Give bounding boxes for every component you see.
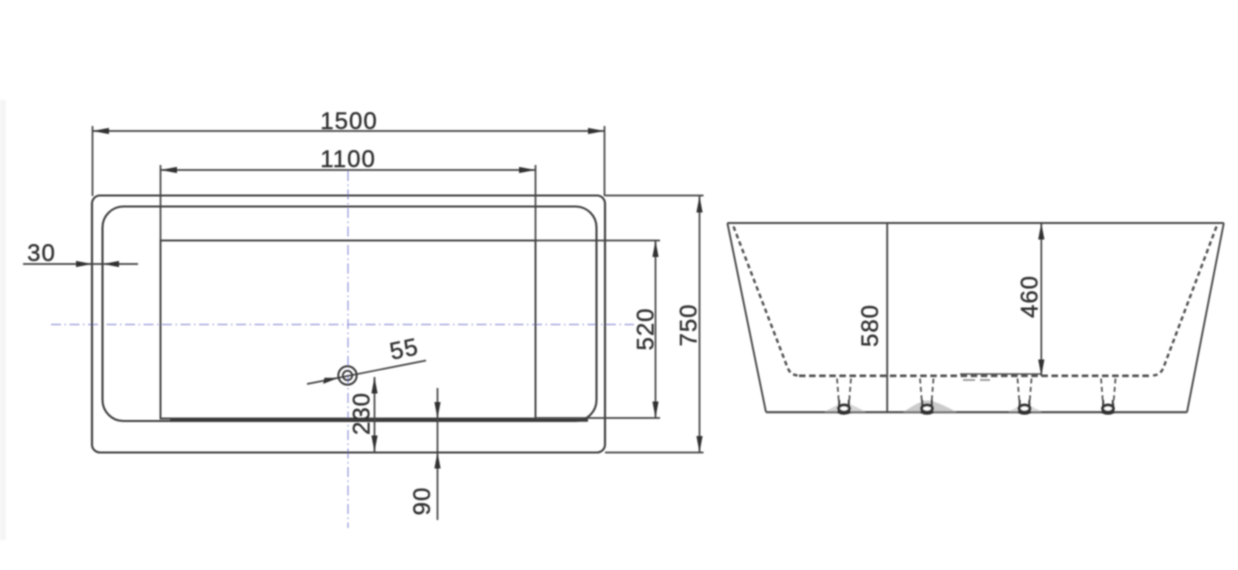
dimension 230: bottom arrow	[371, 436, 377, 453]
dimension 30: right arrow	[103, 261, 119, 267]
drain leader line 55	[307, 361, 426, 385]
drain leader arrow	[323, 378, 338, 384]
elevation: right inner hidden slope (dashed)	[1152, 227, 1217, 376]
drain inner circle	[343, 371, 352, 380]
foot 4 hidden lines (dashed)	[1101, 379, 1116, 407]
dimension 1500: right arrow	[588, 128, 605, 134]
tub floor rectangle (plan view)	[161, 241, 536, 419]
svg-text:1100: 1100	[320, 146, 376, 173]
inner rim rounded rectangle (plan view)	[103, 207, 597, 422]
dimension 1500: dim line	[93, 130, 605, 132]
elevation: top rim edge	[727, 222, 1223, 224]
svg-text:580: 580	[857, 304, 884, 347]
svg-text:90: 90	[409, 487, 436, 516]
dimension 520: top extension line	[536, 240, 661, 242]
foot 1 hidden lines (dashed)	[837, 379, 851, 407]
elevation: bottom edge	[766, 411, 1187, 413]
dimension 460: bottom arrow	[1038, 360, 1044, 377]
svg-text:55: 55	[387, 333, 421, 365]
foot 4 glyph	[1102, 400, 1115, 414]
dimension 90: lower arrow (points up)	[434, 452, 440, 469]
drain pipe hidden marks	[963, 379, 990, 381]
dimension 750: dim line	[699, 196, 701, 453]
dimension 460: top arrow	[1038, 223, 1044, 240]
dimension 90: dim line	[437, 388, 439, 520]
elevation: hidden floor line (dashed)	[799, 374, 1152, 377]
foot 3 hidden lines (dashed)	[1018, 379, 1032, 407]
dimension 460: text	[1017, 275, 1044, 318]
dimension 750: bottom arrow	[696, 436, 702, 453]
dimension 460: dim line	[1040, 223, 1042, 376]
foot 2 mound	[903, 401, 957, 413]
svg-text:1500: 1500	[320, 108, 377, 135]
dimension 1100: left arrow	[161, 167, 178, 173]
dimension 750: top extension line	[605, 195, 704, 197]
thick tub-bottom line	[170, 419, 588, 422]
horizontal centerline (plan view)	[51, 324, 634, 326]
dimension 90: upper arrow (points down)	[434, 402, 440, 419]
dimension 520: bottom arrow	[652, 402, 658, 419]
svg-text:520: 520	[633, 307, 660, 350]
foot 2 glyph	[921, 400, 934, 414]
svg-text:460: 460	[1017, 275, 1044, 318]
dimension 30: dim line	[23, 263, 138, 265]
foot 1 glyph	[838, 400, 851, 414]
dimension 1100: dim line	[161, 169, 536, 171]
dimension 1100: left extension line	[160, 165, 162, 241]
dimension 90: text	[409, 487, 436, 516]
foot 3 mound	[1008, 405, 1042, 413]
dimension 520: bottom extension line	[536, 417, 661, 419]
drain outer circle	[338, 366, 356, 384]
foot 3 glyph	[1018, 400, 1031, 414]
dimension 1100: right extension line	[535, 165, 537, 241]
drain leader text 55	[387, 333, 421, 365]
svg-text:30: 30	[27, 240, 56, 267]
dimension 520: dim line	[655, 241, 657, 419]
dimension 230: top arrow	[371, 377, 377, 394]
dimension 1500: left extension line	[92, 126, 94, 196]
faint left-edge scan streak	[0, 100, 6, 540]
svg-text:230: 230	[349, 392, 376, 435]
dimension 750: bottom extension line	[605, 452, 704, 454]
dimension 1100: right arrow	[519, 167, 536, 173]
dimension 1500: left arrow	[93, 128, 110, 134]
dimension 1500: right extension line	[604, 126, 606, 196]
outer rim rectangle (plan view)	[92, 196, 605, 453]
elevation: left outer slope	[727, 223, 766, 412]
svg-text:750: 750	[676, 303, 703, 346]
elevation: left inner hidden slope (dashed)	[734, 227, 800, 376]
foot 1 mound	[824, 403, 866, 412]
dimension 520: text	[633, 307, 660, 350]
dimension 230: dim line	[374, 377, 376, 452]
dimension 30: left arrow	[76, 261, 92, 267]
elevation: section line (580 dim line)	[886, 223, 888, 412]
vertical centerline (plan view)	[347, 171, 349, 528]
elevation: visible floor ledge line	[960, 373, 1041, 375]
elevation: right outer slope	[1187, 223, 1224, 412]
dimension 230: text	[349, 392, 376, 435]
foot 2 hidden lines (dashed)	[920, 379, 934, 407]
dimension 580: text	[857, 304, 884, 347]
dimension 750: top arrow	[696, 196, 702, 213]
dimension 750: text	[676, 303, 703, 346]
dimension 520: top arrow	[652, 241, 658, 258]
